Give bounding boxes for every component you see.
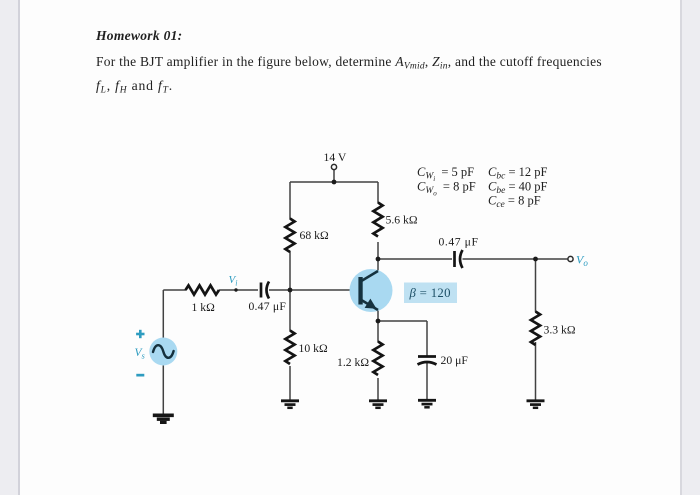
wire emitter right xyxy=(378,320,427,322)
wire top rail xyxy=(290,181,378,183)
wire 1.2k lower xyxy=(377,378,379,400)
ground Vs xyxy=(153,415,174,422)
wire 3.3k branch upper xyxy=(535,259,537,312)
svg-text:For the BJT amplifier in the f: For the BJT amplifier in the figure belo… xyxy=(96,54,602,72)
node emitter junction xyxy=(376,319,381,324)
wire base node to transistor xyxy=(290,289,359,291)
wire out-cap to Vo xyxy=(463,258,569,260)
ground 1.2k xyxy=(369,401,387,408)
node 14V junction xyxy=(332,180,337,185)
output terminal Vo xyxy=(568,253,588,269)
capacitor C input 0.47uF xyxy=(261,282,269,299)
wire 68k branch upper xyxy=(289,182,291,219)
wire emitter stub xyxy=(377,310,379,321)
wire 68k branch lower xyxy=(289,251,291,290)
wire 20uF lower xyxy=(426,363,428,399)
svg-text:20 μF: 20 μF xyxy=(441,354,469,367)
wire collector to out-cap xyxy=(378,258,452,260)
ground 10k xyxy=(281,401,299,408)
svg-text:β = 120: β = 120 xyxy=(409,286,451,300)
resistor R 3.3k xyxy=(531,312,540,346)
svg-text:14 V: 14 V xyxy=(324,151,347,164)
wire 14V stem xyxy=(333,170,335,183)
wire 5.6k branch upper xyxy=(377,182,379,203)
capacitance values text block xyxy=(417,165,547,210)
svg-text:fL, fH and fT.: fL, fH and fT. xyxy=(96,78,173,96)
resistor R 10k xyxy=(285,331,294,365)
wire Vs up xyxy=(162,290,164,338)
label minus xyxy=(136,374,144,377)
wire 10k branch lower xyxy=(289,366,291,400)
wire Vs down xyxy=(162,366,164,415)
svg-text:0.47 μF: 0.47 μF xyxy=(249,300,287,313)
wire 10k branch upper xyxy=(289,290,291,331)
node output junction xyxy=(533,257,538,262)
ground 3.3k xyxy=(527,401,545,408)
svg-text:3.3 kΩ: 3.3 kΩ xyxy=(544,324,576,337)
transistor Q1 xyxy=(350,269,393,312)
supply terminal 14V xyxy=(324,151,347,170)
wire 5.6k branch lower xyxy=(377,242,379,259)
svg-text:5.6 kΩ: 5.6 kΩ xyxy=(386,214,418,227)
wire 1k to cap xyxy=(219,289,258,291)
node base junction xyxy=(288,288,293,293)
wire 3.3k branch lower xyxy=(535,342,537,400)
resistor R 1k (source) xyxy=(186,285,220,294)
svg-text:1 kΩ: 1 kΩ xyxy=(192,301,216,314)
resistor R 1.2k xyxy=(373,342,382,376)
resistor R 5.6k xyxy=(373,203,382,237)
label beta box xyxy=(404,283,457,304)
wire cap to base node xyxy=(269,289,290,291)
title text xyxy=(95,28,602,96)
svg-text:0.47 μF: 0.47 μF xyxy=(439,236,479,249)
right gray strip xyxy=(682,0,700,495)
node collector junction xyxy=(376,257,381,262)
ground 20uF xyxy=(418,400,436,407)
node Vi xyxy=(229,274,238,292)
resistor R 68k xyxy=(285,219,294,253)
svg-text:1.2 kΩ: 1.2 kΩ xyxy=(337,356,369,369)
svg-text:Homework 01:: Homework 01: xyxy=(95,28,182,43)
wire source to 1k xyxy=(163,289,186,291)
wire 20uF upper xyxy=(426,321,428,356)
label plus xyxy=(136,330,144,338)
source Vs circle xyxy=(149,338,177,366)
wire collector stub xyxy=(377,259,379,271)
wire emitter to 1.2k xyxy=(377,321,379,342)
capacitor C emitter 20uF xyxy=(418,357,437,365)
svg-text:68 kΩ: 68 kΩ xyxy=(300,229,329,242)
capacitor C output 0.47uF xyxy=(455,250,463,268)
left gray strip xyxy=(0,0,18,495)
svg-text:10 kΩ: 10 kΩ xyxy=(299,342,328,355)
